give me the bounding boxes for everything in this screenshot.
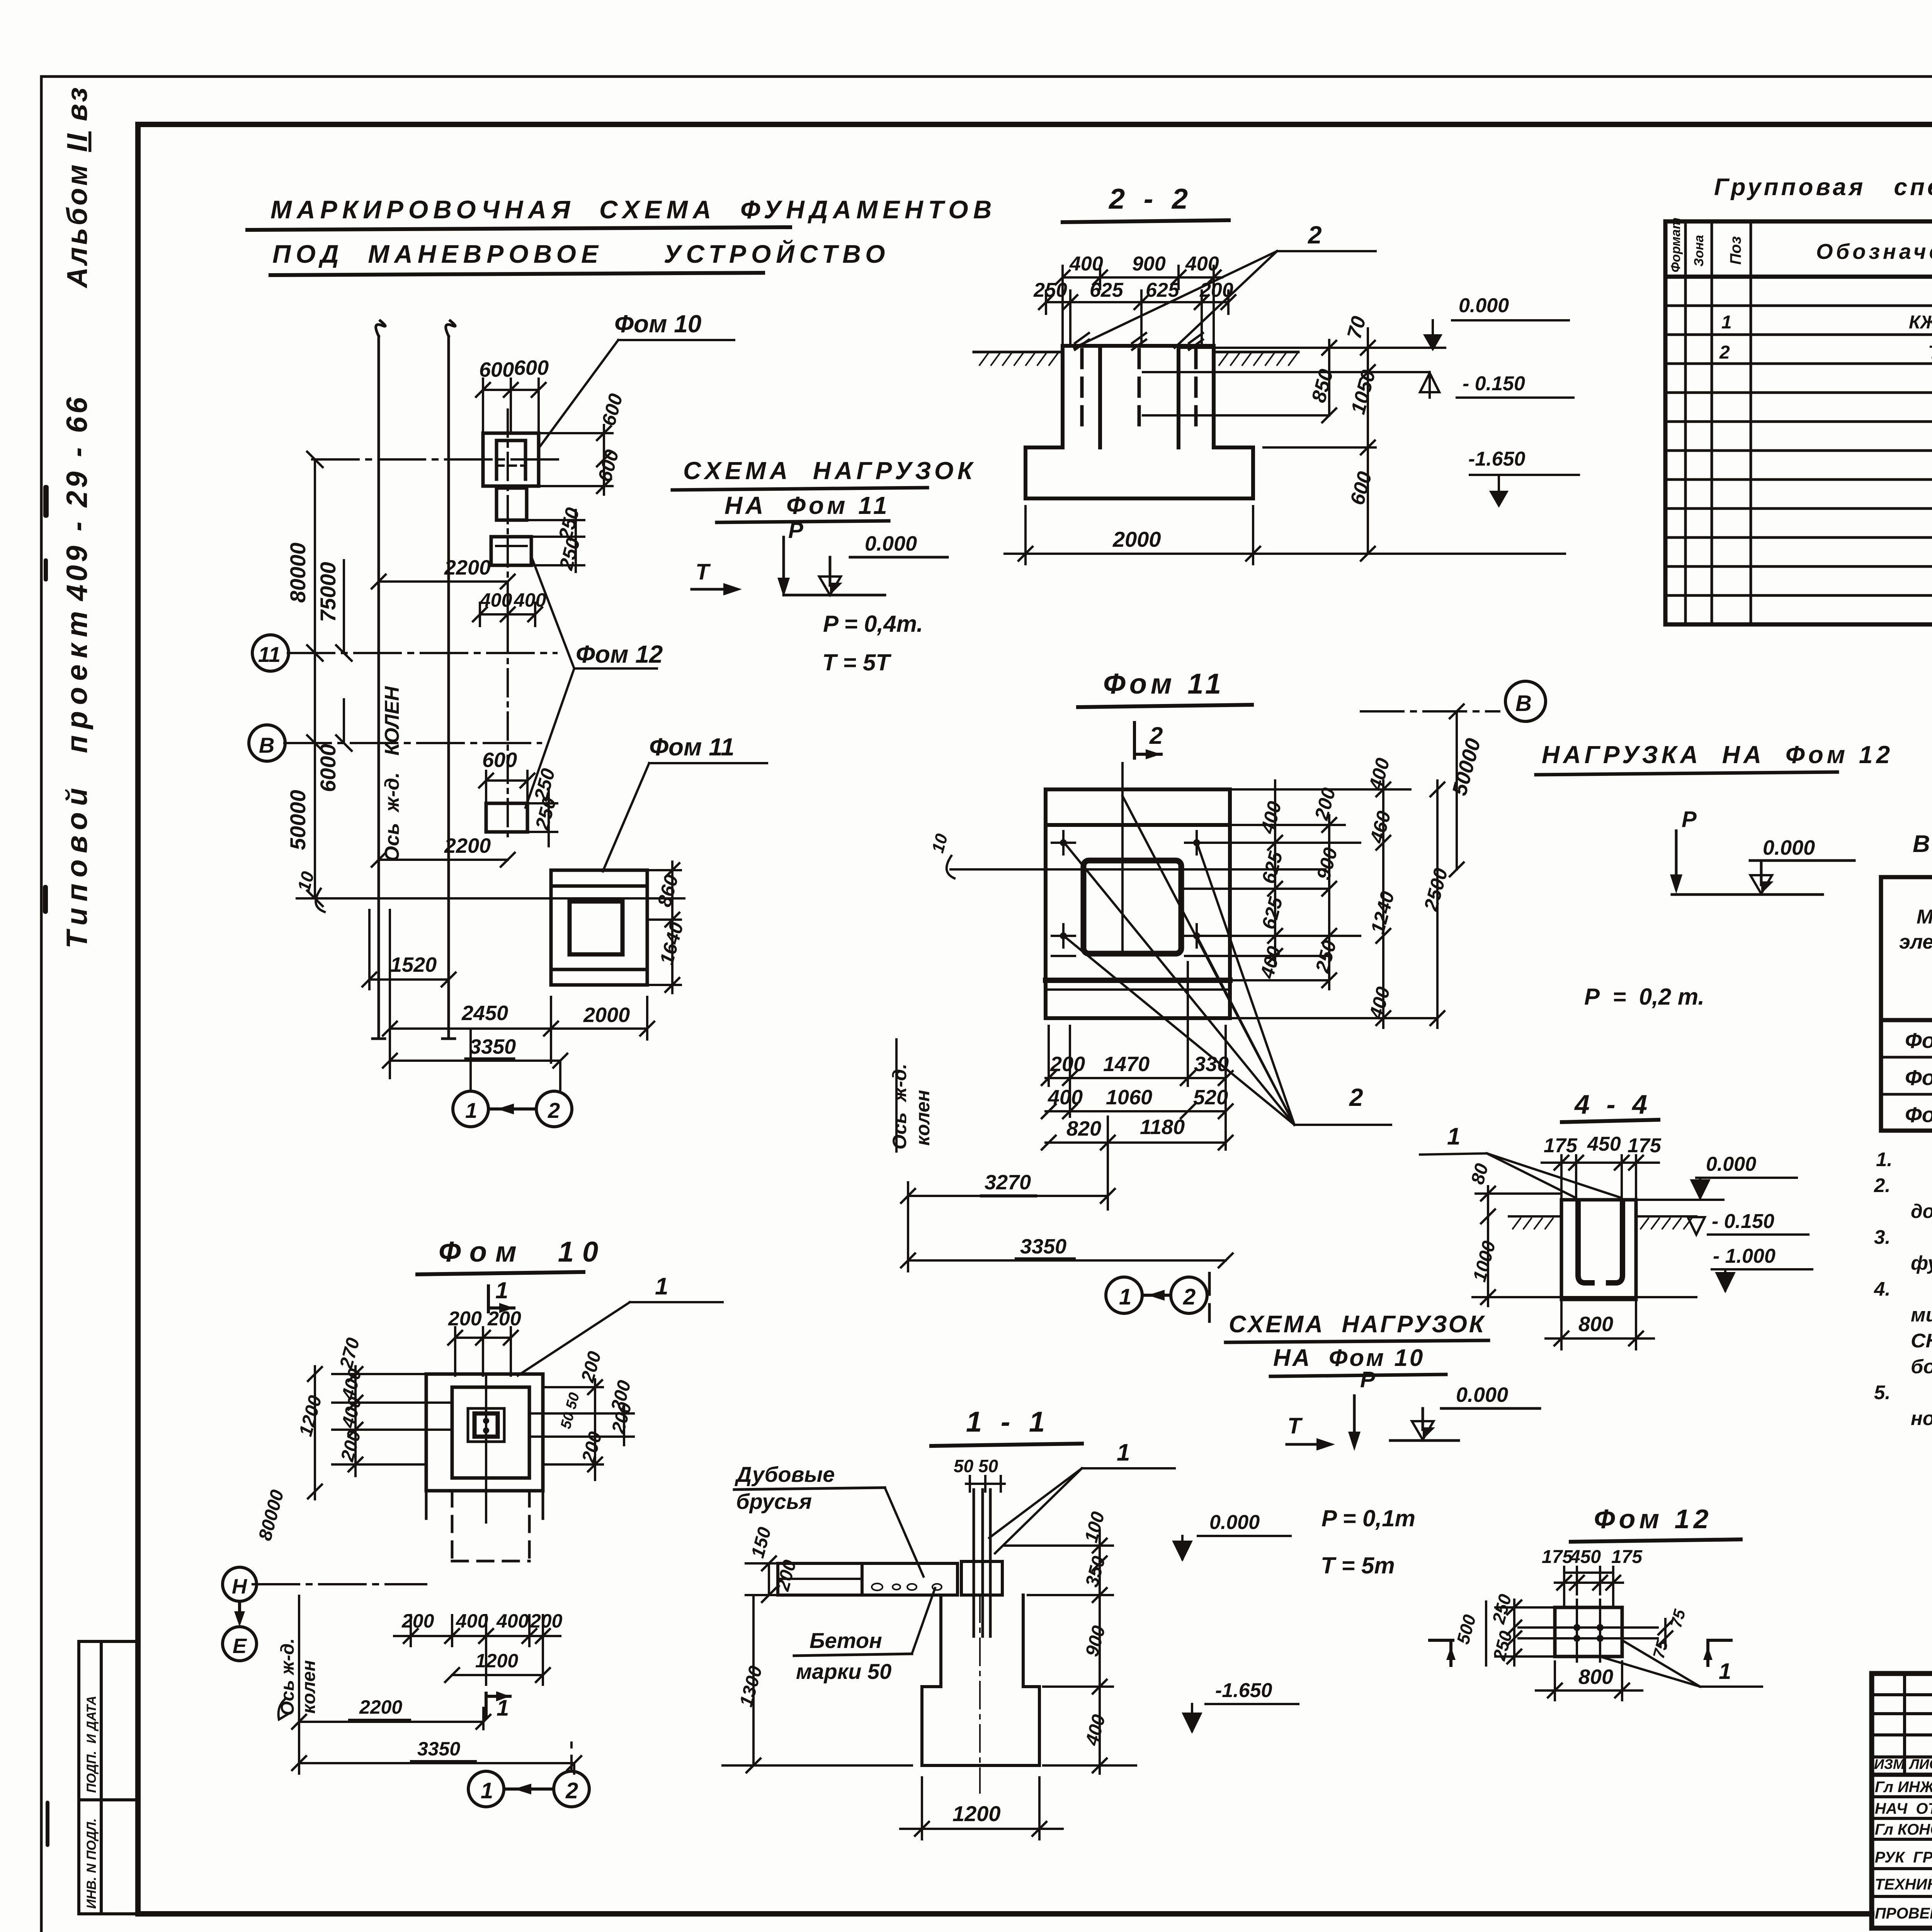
right dimension chains bbox=[1181, 781, 1444, 1028]
svg-text:330: 330 bbox=[1194, 1053, 1229, 1076]
svg-text:СН471- 75 п 2,4 допускаетс: СН471- 75 п 2,4 допускается крепление об… bbox=[1911, 1330, 1932, 1352]
left dims 150 200 1300 bbox=[723, 1556, 912, 1772]
svg-text:200: 200 bbox=[578, 1429, 606, 1465]
svg-text:ПОДП. И ДАТА: ПОДП. И ДАТА bbox=[84, 1696, 99, 1793]
Fom12 lower rect bbox=[486, 803, 527, 832]
svg-text:Фом 10: Фом 10 bbox=[1905, 1028, 1932, 1053]
svg-text:СХЕМА НАГРУЗОК: СХЕМА НАГРУЗОК bbox=[1229, 1311, 1486, 1338]
column circles 1 and 2 bbox=[453, 1091, 572, 1127]
svg-text:P: P bbox=[1682, 807, 1697, 832]
svg-text:1640: 1640 bbox=[656, 920, 688, 967]
svg-text:Фом 12: Фом 12 bbox=[1594, 1504, 1713, 1534]
svg-text:Фом 11: Фом 11 bbox=[1103, 668, 1225, 700]
svg-text:450: 450 bbox=[1587, 1133, 1621, 1155]
svg-text:болтами заделанными в ко: болтами заделанными в колодцы , показанн… bbox=[1911, 1355, 1932, 1378]
svg-text:То же: То же bbox=[1928, 342, 1932, 363]
axis cross bbox=[253, 1583, 426, 1585]
svg-text:СХЕМА НАГРУЗОК: СХЕМА НАГРУЗОК bbox=[683, 457, 976, 485]
elevations bbox=[1174, 1536, 1298, 1731]
svg-text:ми болтами , соединенными: ми болтами , соединенными с бетоном на э… bbox=[1911, 1304, 1932, 1326]
rail lines with hooked tops bbox=[376, 321, 385, 1039]
svg-text:2: 2 bbox=[565, 1778, 578, 1803]
svg-text:1200: 1200 bbox=[952, 1801, 1001, 1826]
svg-text:600: 600 bbox=[594, 447, 623, 484]
svg-text:1 - 1: 1 - 1 bbox=[966, 1406, 1050, 1438]
svg-text:600: 600 bbox=[482, 748, 517, 772]
dims 200 200 top bbox=[448, 1327, 518, 1376]
leaders to 2 bbox=[1066, 796, 1391, 1125]
svg-text:250: 250 bbox=[555, 536, 584, 573]
svg-text:1050: 1050 bbox=[1347, 367, 1380, 417]
right dims 860 / 1640 bbox=[650, 862, 681, 993]
main title top-left bbox=[270, 195, 997, 268]
svg-text:600: 600 bbox=[598, 391, 627, 428]
axis 11 bbox=[288, 652, 556, 654]
svg-text:600: 600 bbox=[479, 358, 514, 381]
leader Fom 10 bbox=[539, 340, 618, 448]
svg-text:ПРОВЕРИЛ: ПРОВЕРИЛ bbox=[1875, 1905, 1932, 1922]
svg-text:200: 200 bbox=[1310, 786, 1340, 823]
ground lines + hatch bbox=[974, 351, 1298, 354]
svg-text:3270: 3270 bbox=[985, 1171, 1031, 1194]
svg-text:900: 900 bbox=[1082, 1623, 1109, 1658]
svg-text:- 1.000: - 1.000 bbox=[1713, 1245, 1776, 1267]
svg-text:- 0.150: - 0.150 bbox=[1712, 1210, 1774, 1233]
svg-text:625: 625 bbox=[1146, 279, 1180, 301]
axis B bbox=[284, 742, 541, 744]
ground + hatch bbox=[1509, 1215, 1696, 1218]
svg-text:250: 250 bbox=[531, 795, 560, 832]
svg-text:2000: 2000 bbox=[583, 1003, 630, 1027]
svg-text:Фом 11: Фом 11 bbox=[649, 733, 735, 761]
bolts bbox=[1519, 1600, 1658, 1662]
svg-text:1: 1 bbox=[1119, 1284, 1131, 1310]
svg-text:1.: 1. bbox=[1876, 1148, 1893, 1170]
section line 2 vertical dashed through plan bbox=[1121, 763, 1124, 954]
left dims 500 250 250 bbox=[1486, 1600, 1553, 1665]
main rectangle bbox=[1046, 789, 1230, 1018]
svg-text:2 - 2: 2 - 2 bbox=[1108, 183, 1193, 215]
svg-text:Фом 12: Фом 12 bbox=[576, 640, 663, 668]
bottom dim 2000 bbox=[1005, 506, 1271, 564]
svg-text:Фом 11: Фом 11 bbox=[1905, 1065, 1932, 1090]
svg-text:900: 900 bbox=[1132, 253, 1166, 275]
elevations right bbox=[1638, 1178, 1812, 1291]
svg-text:ИНВ. N ПОДЛ.: ИНВ. N ПОДЛ. bbox=[84, 1818, 99, 1909]
section 2 bottom tick bbox=[1208, 1273, 1211, 1321]
svg-text:Зона: Зона bbox=[1692, 235, 1706, 267]
svg-text:400: 400 bbox=[496, 1610, 529, 1632]
leader 1 top bbox=[1420, 1153, 1621, 1198]
svg-text:Групповая спецификация для: Групповая спецификация для монолитных эл… bbox=[1714, 174, 1932, 201]
rect body bbox=[1555, 1607, 1622, 1656]
svg-text:1060: 1060 bbox=[1106, 1086, 1152, 1109]
svg-text:75000: 75000 bbox=[316, 562, 340, 622]
svg-text:200: 200 bbox=[530, 1610, 563, 1632]
svg-text:50000: 50000 bbox=[286, 790, 310, 850]
svg-text:2: 2 bbox=[1149, 723, 1163, 749]
svg-text:175: 175 bbox=[1544, 1134, 1578, 1157]
slab left with oak beams bbox=[778, 1561, 1039, 1765]
centerline bbox=[979, 1595, 981, 1793]
svg-text:1180: 1180 bbox=[1140, 1116, 1185, 1139]
dim verticals 80000 / 75000 / 50000 / 6000 bbox=[307, 452, 352, 906]
svg-text:1: 1 bbox=[655, 1273, 668, 1300]
svg-text:1: 1 bbox=[1117, 1439, 1130, 1466]
leader 1 bbox=[518, 1302, 723, 1376]
svg-text:3.: 3. bbox=[1874, 1226, 1891, 1248]
left dims bbox=[308, 1366, 450, 1499]
centre axis of foundations (dash-dot) bbox=[507, 410, 509, 838]
svg-text:Марка: Марка bbox=[1917, 906, 1932, 928]
svg-text:колен: колен bbox=[912, 1090, 934, 1146]
svg-text:400: 400 bbox=[1364, 756, 1394, 793]
svg-text:Т: Т bbox=[1287, 1413, 1303, 1439]
svg-text:2: 2 bbox=[1349, 1083, 1363, 1111]
svg-text:5.: 5. bbox=[1874, 1381, 1891, 1403]
svg-text:400: 400 bbox=[1256, 944, 1285, 981]
hidden lower part dashed bbox=[452, 1491, 529, 1561]
svg-text:2: 2 bbox=[1719, 342, 1730, 363]
svg-text:70: 70 bbox=[1343, 314, 1371, 341]
svg-text:11: 11 bbox=[258, 642, 281, 667]
svg-text:P: P bbox=[1360, 1367, 1375, 1392]
leader 2 bbox=[1074, 251, 1376, 348]
svg-text:10: 10 bbox=[928, 832, 951, 855]
foundation body bbox=[1026, 346, 1253, 498]
left rows bbox=[1872, 1693, 1932, 1696]
axis 10 (bottom long) bbox=[297, 897, 684, 900]
svg-text:6000: 6000 bbox=[316, 744, 340, 792]
svg-text:фундаментов сверить по обо: фундаментов сверить по оборудованию. bbox=[1911, 1252, 1932, 1274]
bottom dimension chains bbox=[362, 910, 654, 1091]
svg-text:Т = 5т: Т = 5т bbox=[1321, 1553, 1395, 1578]
svg-text:P: P bbox=[788, 518, 803, 543]
svg-text:2.: 2. bbox=[1874, 1174, 1891, 1196]
svg-text:450: 450 bbox=[1570, 1547, 1601, 1567]
svg-text:P = 0,1т: P = 0,1т bbox=[1321, 1505, 1415, 1531]
bottom dim 800 bbox=[1546, 1301, 1654, 1349]
dim row 400 900 400 bbox=[1039, 266, 1235, 350]
bottom dim 1200 bbox=[900, 1777, 1063, 1839]
svg-text:0.000: 0.000 bbox=[1456, 1383, 1508, 1406]
svg-text:1: 1 bbox=[495, 1277, 508, 1303]
svg-text:350: 350 bbox=[1082, 1554, 1109, 1589]
centerline horizontal bbox=[951, 868, 1325, 871]
svg-text:2500: 2500 bbox=[1420, 866, 1452, 913]
svg-text:-1.650: -1.650 bbox=[1468, 448, 1526, 470]
right dims bbox=[531, 1379, 634, 1480]
svg-text:400: 400 bbox=[1069, 253, 1103, 275]
svg-text:Гл КОНСТР: Гл КОНСТР bbox=[1875, 1821, 1932, 1838]
Fom12 upper rect bbox=[491, 537, 531, 565]
svg-text:409 - 29 - 66: 409 - 29 - 66 bbox=[61, 394, 94, 602]
svg-text:Ось ж-д. КОЛЕН: Ось ж-д. КОЛЕН bbox=[381, 686, 403, 862]
svg-text:Альбом II вз: Альбом II вз bbox=[61, 85, 93, 289]
svg-text:ТЕХНИК: ТЕХНИК bbox=[1875, 1876, 1932, 1893]
svg-text:400: 400 bbox=[1256, 799, 1286, 836]
svg-text:860: 860 bbox=[653, 872, 683, 909]
svg-text:НАЧ ОТД: НАЧ ОТД bbox=[1875, 1800, 1932, 1817]
svg-text:1240: 1240 bbox=[1367, 889, 1399, 936]
dims 175 450 175 bbox=[1542, 1155, 1659, 1200]
svg-text:ПОД МАНЕВРОВОЕ УСТРОЙСТВО: ПОД МАНЕВРОВОЕ УСТРОЙСТВО bbox=[272, 239, 890, 268]
svg-text:400: 400 bbox=[1082, 1712, 1109, 1748]
well body bbox=[1561, 1200, 1636, 1299]
svg-text:250: 250 bbox=[1033, 279, 1067, 301]
anchor bolt crosses bbox=[1052, 831, 1208, 956]
side section marks bbox=[1430, 1640, 1731, 1665]
svg-text:ЛИСТ: ЛИСТ bbox=[1908, 1756, 1932, 1772]
svg-text:2450: 2450 bbox=[461, 1002, 508, 1025]
section mark 2 top bbox=[1134, 723, 1161, 758]
svg-text:600: 600 bbox=[514, 356, 549, 379]
svg-text:колен: колен bbox=[299, 1660, 319, 1714]
svg-text:250: 250 bbox=[1488, 1592, 1515, 1626]
Os zh.d. kolen rotated bbox=[889, 1064, 934, 1150]
svg-text:250: 250 bbox=[1311, 938, 1340, 975]
svg-text:НА Фом 10: НА Фом 10 bbox=[1273, 1345, 1425, 1371]
dim row 250 625 625 200 bbox=[1046, 301, 1228, 303]
svg-text:1: 1 bbox=[1719, 1659, 1731, 1684]
svg-text:1200: 1200 bbox=[295, 1393, 326, 1439]
Os zh.d. kolen bbox=[277, 1638, 319, 1716]
axis circles 11 and B bbox=[249, 635, 289, 761]
svg-text:400: 400 bbox=[480, 589, 512, 611]
right elevation marks bbox=[1143, 320, 1579, 561]
svg-text:1470: 1470 bbox=[1103, 1053, 1150, 1076]
svg-text:200: 200 bbox=[401, 1610, 434, 1632]
Fom11 plan on scheme bbox=[551, 870, 647, 985]
right dims 75 75 bbox=[1658, 1619, 1672, 1648]
svg-text:P = 0,4т.: P = 0,4т. bbox=[823, 611, 923, 637]
svg-text:200: 200 bbox=[448, 1308, 482, 1330]
svg-text:Ось ж-д.: Ось ж-д. bbox=[889, 1064, 910, 1150]
svg-text:400: 400 bbox=[514, 589, 546, 611]
Fom10 plan (top) bbox=[483, 433, 539, 565]
svg-text:Дубовые: Дубовые bbox=[735, 1462, 835, 1486]
leader 1 bbox=[989, 1468, 1175, 1553]
svg-text:Фом 12: Фом 12 bbox=[1905, 1102, 1932, 1127]
svg-text:800: 800 bbox=[1578, 1665, 1613, 1689]
svg-text:200: 200 bbox=[487, 1308, 521, 1330]
section mark 1 top bbox=[488, 1286, 514, 1312]
svg-text:МАРКИРОВОЧНАЯ СХЕМА ФУНДАМЕН: МАРКИРОВОЧНАЯ СХЕМА ФУНДАМЕНТОВ bbox=[270, 195, 997, 224]
50000 dim + axis B circle right bbox=[1361, 704, 1499, 876]
svg-text:625: 625 bbox=[1258, 895, 1287, 932]
svg-text:520: 520 bbox=[1193, 1086, 1228, 1109]
svg-text:50 50: 50 50 bbox=[954, 1456, 998, 1476]
svg-text:-1.650: -1.650 bbox=[1215, 1679, 1272, 1702]
svg-text:ИЗМ: ИЗМ bbox=[1874, 1756, 1905, 1772]
svg-text:4.: 4. bbox=[1874, 1278, 1891, 1300]
svg-text:Типовой проект: Типовой проект bbox=[61, 605, 94, 949]
svg-text:0.000: 0.000 bbox=[1209, 1511, 1260, 1534]
svg-text:175: 175 bbox=[1628, 1134, 1662, 1157]
svg-text:Выборка стали на один э: Выборка стали на один элемент , кг bbox=[1913, 831, 1932, 857]
2200 / 400 400 dims under Fom10 bbox=[372, 575, 542, 626]
svg-text:0.000: 0.000 bbox=[1459, 294, 1509, 317]
table content bbox=[1719, 285, 1932, 564]
svg-text:200: 200 bbox=[1050, 1053, 1085, 1076]
svg-text:4 - 4: 4 - 4 bbox=[1574, 1089, 1652, 1119]
svg-text:400: 400 bbox=[1048, 1086, 1083, 1109]
dims 600 600 above Fom10 bbox=[476, 379, 546, 431]
svg-text:марки 50: марки 50 bbox=[796, 1659, 891, 1684]
50 50 dims bbox=[966, 1476, 1005, 1492]
svg-text:3350: 3350 bbox=[1020, 1235, 1066, 1258]
svg-text:1000: 1000 bbox=[1469, 1239, 1500, 1284]
right side dims of Fom10: 600/600 and 250/250 bbox=[529, 425, 612, 572]
svg-text:2200: 2200 bbox=[359, 1696, 402, 1718]
svg-text:50 50: 50 50 bbox=[558, 1391, 583, 1431]
svg-text:1: 1 bbox=[1721, 312, 1732, 333]
svg-text:2000: 2000 bbox=[1112, 527, 1161, 551]
svg-text:2: 2 bbox=[548, 1098, 560, 1122]
svg-text:0.000: 0.000 bbox=[1763, 836, 1815, 859]
svg-text:400: 400 bbox=[1365, 985, 1394, 1022]
bottom dim 800 + leader 1 bbox=[1536, 1662, 1642, 1700]
bottom dim chains of Fom11 plan bbox=[901, 962, 1233, 1271]
svg-text:500: 500 bbox=[1452, 1612, 1480, 1646]
svg-text:175: 175 bbox=[1611, 1547, 1643, 1567]
svg-text:0.000: 0.000 bbox=[865, 532, 917, 555]
svg-text:2: 2 bbox=[1183, 1284, 1196, 1310]
left bottom frame table bbox=[79, 1641, 138, 1914]
svg-text:Формат: Формат bbox=[1668, 218, 1683, 272]
svg-text:80000: 80000 bbox=[255, 1488, 288, 1543]
left dims 80 / 1000 bbox=[1473, 1186, 1696, 1306]
svg-text:Т: Т bbox=[696, 560, 711, 585]
svg-text:Бетон: Бетон bbox=[810, 1628, 882, 1653]
svg-text:1: 1 bbox=[497, 1696, 509, 1721]
svg-text:460: 460 bbox=[1366, 809, 1395, 846]
svg-text:Фом 10: Фом 10 bbox=[439, 1236, 607, 1268]
dims 175 450 175 bbox=[1555, 1567, 1623, 1607]
svg-text:НА Фом 11: НА Фом 11 bbox=[724, 492, 890, 519]
plan outline bbox=[426, 1374, 543, 1491]
H and E circles bbox=[223, 1567, 257, 1661]
svg-text:Р = 0,2 т.: Р = 0,2 т. bbox=[1584, 984, 1704, 1010]
svg-text:Обозначение: Обозначение bbox=[1816, 239, 1932, 264]
svg-text:50000: 50000 bbox=[1448, 736, 1485, 798]
bottom dims bbox=[292, 1596, 581, 1774]
svg-text:800: 800 bbox=[1578, 1313, 1613, 1336]
svg-text:В: В bbox=[1515, 691, 1532, 716]
svg-text:КЖИ - А1÷ А4: КЖИ - А1÷ А4 bbox=[1909, 312, 1932, 333]
svg-text:625: 625 bbox=[1090, 279, 1124, 301]
svg-text:2200: 2200 bbox=[444, 834, 491, 857]
rail axis rotated text bbox=[381, 686, 403, 862]
circles 1 2 bbox=[468, 1743, 589, 1807]
svg-text:до отм. 0.000 , утрамбовать и: до отм. 0.000 , утрамбовать и поверхност… bbox=[1911, 1200, 1932, 1222]
svg-text:0.000: 0.000 bbox=[1706, 1153, 1756, 1175]
section 1 bottom bbox=[486, 1693, 510, 1718]
svg-text:элемента: элемента bbox=[1899, 931, 1932, 953]
left margin stamp texts (rotated) bbox=[61, 85, 94, 949]
svg-text:75: 75 bbox=[1667, 1607, 1689, 1629]
svg-text:Т = 5Т: Т = 5Т bbox=[822, 650, 891, 675]
svg-text:820: 820 bbox=[1066, 1117, 1101, 1140]
svg-text:РУК ГР: РУК ГР bbox=[1875, 1849, 1932, 1866]
anchor bolts dashed bbox=[1082, 350, 1196, 425]
svg-text:80000: 80000 bbox=[286, 543, 310, 603]
svg-text:200: 200 bbox=[577, 1349, 605, 1384]
svg-text:1300: 1300 bbox=[736, 1664, 766, 1709]
svg-text:625: 625 bbox=[1258, 849, 1287, 886]
svg-text:Е: Е bbox=[233, 1634, 247, 1658]
svg-text:270: 270 bbox=[336, 1335, 364, 1371]
svg-text:В: В bbox=[259, 733, 274, 757]
foundation below bbox=[922, 1595, 1039, 1765]
svg-text:400: 400 bbox=[456, 1610, 488, 1632]
svg-text:- 0.150: - 0.150 bbox=[1463, 372, 1525, 395]
svg-text:ной 50 мм , втрамбованную: ной 50 мм , втрамбованную в грунт. bbox=[1911, 1407, 1932, 1429]
svg-text:150: 150 bbox=[747, 1525, 775, 1560]
svg-text:3350: 3350 bbox=[469, 1035, 516, 1058]
svg-text:1: 1 bbox=[1447, 1123, 1460, 1150]
svg-text:1520: 1520 bbox=[390, 953, 437, 976]
svg-text:НАГРУЗКА НА Фом 12: НАГРУЗКА НА Фом 12 bbox=[1542, 741, 1893, 769]
verticals bbox=[1684, 221, 1687, 624]
svg-text:175: 175 bbox=[1542, 1547, 1573, 1567]
pedestal bbox=[961, 1561, 1002, 1595]
axis through Fom10 bbox=[312, 458, 564, 461]
svg-text:брусья: брусья bbox=[736, 1489, 812, 1514]
circles 1 2 under fom11 plan bbox=[1106, 1277, 1207, 1313]
svg-text:80: 80 bbox=[1467, 1161, 1492, 1187]
svg-text:900: 900 bbox=[1313, 845, 1342, 882]
svg-text:1200: 1200 bbox=[475, 1650, 518, 1672]
svg-text:2: 2 bbox=[1308, 221, 1322, 249]
svg-text:1: 1 bbox=[481, 1778, 493, 1803]
svg-text:Гл ИНЖ ПР: Гл ИНЖ ПР bbox=[1875, 1779, 1932, 1796]
svg-text:2200: 2200 bbox=[444, 556, 491, 579]
svg-text:600: 600 bbox=[1346, 469, 1376, 507]
left signature grid verticals bbox=[1903, 1673, 1906, 1775]
right dims 100 350 900 400 bbox=[1005, 1530, 1136, 1774]
anchor bolts bbox=[974, 1490, 990, 1636]
svg-text:Фом 10: Фом 10 bbox=[614, 310, 701, 338]
svg-text:Поз: Поз bbox=[1727, 236, 1744, 265]
dims for lower Fom12 bbox=[372, 771, 557, 867]
scan artifacts on left edge bbox=[43, 485, 110, 1932]
svg-text:400: 400 bbox=[1185, 253, 1219, 275]
svg-text:Н: Н bbox=[232, 1575, 247, 1598]
svg-text:3350: 3350 bbox=[417, 1738, 460, 1760]
svg-text:1: 1 bbox=[465, 1098, 477, 1122]
oak beam section pattern bbox=[872, 1583, 942, 1590]
